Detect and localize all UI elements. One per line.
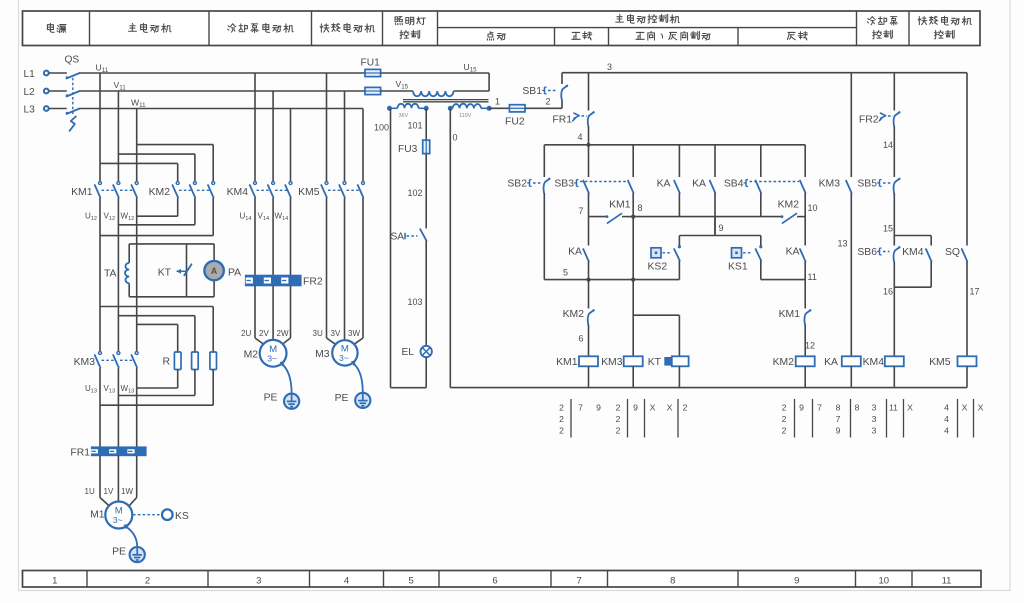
svg-text:4: 4 (944, 403, 949, 413)
ammeter PA (204, 261, 223, 280)
svg-text:KM5: KM5 (929, 357, 951, 368)
svg-text:4: 4 (577, 132, 582, 142)
wire KM2 output crossover (177, 198, 179, 216)
svg-text:X: X (650, 403, 656, 413)
wire KM2 feeds (137, 144, 214, 146)
svg-text:8: 8 (855, 403, 860, 413)
header cell 主电动控制机 (616, 14, 680, 23)
svg-text:EL: EL (402, 347, 415, 358)
svg-text:7: 7 (836, 414, 841, 424)
svg-text:SB4: SB4 (724, 179, 744, 190)
svg-text:FU3: FU3 (398, 144, 418, 155)
wire U11 drop (99, 73, 101, 182)
svg-text:6: 6 (492, 575, 497, 586)
svg-text:KM1: KM1 (609, 200, 631, 211)
node 8 (631, 215, 635, 219)
svg-text:TA: TA (104, 269, 117, 280)
svg-text:PE: PE (264, 393, 278, 404)
svg-text:X: X (978, 403, 984, 413)
svg-text:17: 17 (970, 287, 980, 297)
svg-text:R: R (162, 357, 170, 368)
wire M2 leads (254, 286, 256, 338)
svg-text:KM2: KM2 (149, 187, 171, 198)
svg-text:2: 2 (546, 97, 551, 107)
wire R bank top taps (100, 306, 213, 308)
svg-text:L3: L3 (24, 105, 36, 116)
svg-text:8: 8 (670, 575, 675, 586)
header cell 反转 (787, 32, 807, 40)
wire M3 leads (326, 198, 328, 338)
svg-text:SQ: SQ (945, 247, 960, 258)
svg-text:7: 7 (577, 575, 582, 586)
header cell 冷却泵控制 (867, 17, 897, 26)
svg-text:8: 8 (836, 403, 841, 413)
svg-text:9: 9 (596, 403, 601, 413)
svg-text:103: 103 (408, 297, 423, 307)
svg-text:M2: M2 (244, 350, 259, 361)
svg-text:KA: KA (824, 357, 838, 368)
header table (23, 11, 981, 46)
wire KM1 outputs (99, 198, 101, 352)
svg-text:3: 3 (607, 62, 612, 72)
header cell 快移电动机 (320, 23, 374, 32)
relay contact KA (jog bypass left) (678, 145, 680, 177)
svg-text:SB3: SB3 (554, 179, 574, 190)
svg-text:3U: 3U (313, 329, 323, 338)
svg-text:4: 4 (344, 575, 349, 586)
svg-text:2: 2 (683, 403, 688, 413)
wire V11 drop (117, 91, 119, 182)
svg-text:2: 2 (782, 403, 787, 413)
wire 4 rail (544, 144, 805, 146)
svg-text:2: 2 (559, 426, 564, 436)
svg-text:11: 11 (942, 575, 952, 586)
svg-text:1W: 1W (121, 487, 133, 496)
wire 103 (425, 241, 427, 346)
svg-text:KM1: KM1 (779, 309, 801, 320)
svg-text:110V: 110V (459, 113, 472, 119)
svg-text:15: 15 (883, 224, 893, 234)
svg-text:12: 12 (805, 341, 815, 351)
svg-text:FU2: FU2 (505, 117, 525, 128)
svg-text:KM1: KM1 (71, 187, 93, 198)
thermal relay FR2 heaters (246, 275, 302, 285)
svg-text:7: 7 (578, 206, 583, 216)
svg-text:36V: 36V (399, 113, 409, 119)
wire 102 (425, 154, 427, 229)
svg-text:SB1: SB1 (522, 86, 542, 97)
header cell 主电动机 (129, 23, 171, 32)
svg-text:7: 7 (817, 403, 822, 413)
wire M1 leads (99, 456, 101, 498)
wire KM5 pole feeds (326, 73, 328, 182)
wire L3 bus (79, 108, 363, 110)
motor M1 (100, 498, 109, 507)
wire L1 bus (79, 72, 365, 74)
svg-text:FU1: FU1 (361, 58, 381, 69)
svg-text:7: 7 (578, 403, 583, 413)
bottom zone-number table (23, 571, 982, 588)
header cell 电源 (47, 23, 66, 32)
svg-text:KS: KS (175, 511, 189, 522)
svg-text:PA: PA (228, 268, 241, 279)
svg-text:L2: L2 (24, 87, 36, 98)
transformer 110V secondary winding (450, 107, 452, 109)
svg-text:KM3: KM3 (601, 357, 623, 368)
speed switch KS2 (678, 236, 680, 246)
wire 8 (633, 216, 781, 218)
svg-text:3: 3 (872, 403, 877, 413)
speed switch KS1 (760, 236, 762, 246)
svg-text:L1: L1 (24, 69, 36, 80)
svg-text:3: 3 (872, 414, 877, 424)
svg-text:SA: SA (391, 232, 405, 243)
motor M3 (327, 338, 336, 344)
svg-text:KM1: KM1 (556, 357, 578, 368)
svg-text:2: 2 (145, 575, 150, 586)
svg-text:1: 1 (52, 575, 57, 586)
svg-text:3: 3 (872, 426, 877, 436)
wire W11 drop (136, 109, 138, 182)
svg-text:X: X (907, 403, 913, 413)
svg-text:SB5: SB5 (857, 179, 877, 190)
svg-text:10: 10 (808, 203, 818, 213)
svg-text:KA: KA (786, 247, 800, 258)
header cell 冷却泵电动机 (228, 23, 294, 32)
svg-text:14: 14 (883, 140, 893, 150)
svg-text:A: A (211, 266, 218, 276)
motor M2 (255, 338, 264, 345)
svg-text:KM5: KM5 (298, 187, 320, 198)
pushbutton SB2 (543, 145, 545, 177)
svg-text:PE: PE (335, 393, 349, 404)
svg-text:4: 4 (944, 414, 949, 424)
contact KM2 self-hold (781, 215, 784, 218)
svg-text:0: 0 (453, 133, 458, 143)
svg-text:KM2: KM2 (563, 309, 585, 320)
wire M1 feeders (99, 368, 101, 447)
svg-text:X: X (667, 403, 673, 413)
svg-text:KM4: KM4 (863, 357, 885, 368)
svg-text:2: 2 (616, 403, 621, 413)
contact KM1 interlock (804, 280, 806, 309)
svg-text:KM4: KM4 (902, 247, 924, 258)
transformer TC primary winding (413, 91, 454, 96)
svg-text:100: 100 (374, 123, 389, 133)
wire KT coil feed (633, 314, 679, 316)
wire 100 (390, 108, 392, 387)
svg-text:FR2: FR2 (303, 277, 323, 288)
svg-text:QS: QS (65, 55, 80, 66)
wire 0 (449, 108, 451, 387)
svg-text:KM2: KM2 (773, 357, 795, 368)
header cell 正转 (572, 32, 592, 40)
wire V15 (381, 90, 413, 92)
svg-text:2: 2 (782, 414, 787, 424)
relay contact KA (hold right) (804, 217, 806, 246)
wire 1 (489, 107, 509, 109)
svg-text:3: 3 (256, 575, 261, 586)
svg-text:4: 4 (944, 426, 949, 436)
svg-text:2: 2 (782, 426, 787, 436)
svg-text:3~: 3~ (113, 515, 123, 525)
svg-text:KM3: KM3 (74, 357, 96, 368)
svg-text:3~: 3~ (339, 353, 349, 363)
svg-text:1V: 1V (104, 487, 114, 496)
svg-text:16: 16 (883, 287, 893, 297)
fuse FU2 (509, 105, 525, 112)
svg-text:2: 2 (616, 426, 621, 436)
svg-text:5: 5 (563, 268, 568, 278)
wire 11 (761, 279, 805, 281)
wire 2 (525, 107, 562, 109)
relay contact KA (hold left) (588, 217, 590, 246)
wire 9 (714, 217, 716, 236)
svg-text:6: 6 (578, 334, 583, 344)
svg-text:KM4: KM4 (227, 187, 249, 198)
header cell 照明灯控制 (395, 17, 425, 25)
svg-text:3V: 3V (331, 329, 341, 338)
node 4 (586, 143, 590, 147)
svg-text:9: 9 (633, 403, 638, 413)
header cell 点动 (487, 32, 505, 41)
svg-text:5: 5 (409, 575, 414, 586)
header cell 快移电动机控制 (918, 16, 971, 25)
wire lighting return (425, 357, 427, 388)
svg-text:3~: 3~ (267, 353, 277, 363)
wire KM4 outputs (254, 198, 256, 275)
svg-text:2: 2 (616, 414, 621, 424)
svg-text:9: 9 (719, 223, 724, 233)
svg-text:KA: KA (692, 179, 706, 190)
svg-text:SB2: SB2 (507, 179, 527, 190)
svg-text:2: 2 (559, 414, 564, 424)
svg-text:2V: 2V (259, 329, 269, 338)
svg-text:10: 10 (879, 575, 890, 586)
svg-text:SB6: SB6 (857, 247, 877, 258)
header cell 正向、反向制动 (636, 31, 710, 40)
contact KM2 interlock (588, 280, 590, 309)
svg-text:KM2: KM2 (778, 200, 800, 211)
svg-text:3W: 3W (348, 329, 360, 338)
svg-text:1U: 1U (85, 487, 95, 496)
speed switch KS link (133, 514, 162, 516)
svg-text:PE: PE (112, 547, 126, 558)
svg-text:FR1: FR1 (70, 448, 90, 459)
wire 101 (425, 108, 427, 140)
relay contact KA (jog bypass right) (714, 145, 716, 177)
limit switch SQ (966, 73, 968, 246)
svg-text:FR1: FR1 (552, 115, 572, 126)
svg-text:KS2: KS2 (648, 262, 668, 273)
svg-text:X: X (962, 403, 968, 413)
wire U15 (381, 72, 490, 74)
wire 16 branch (894, 286, 931, 288)
contact KM3 (KA branch) (850, 73, 852, 177)
wire 5 rail (544, 279, 679, 281)
svg-text:1: 1 (495, 97, 500, 107)
current transformer TA box (129, 243, 214, 245)
svg-text:KT: KT (158, 268, 172, 279)
svg-text:11: 11 (808, 272, 817, 282)
svg-text:9: 9 (799, 403, 804, 413)
svg-text:13: 13 (837, 239, 847, 249)
contact KM1 self-hold (589, 216, 607, 218)
wire 3 rail (562, 72, 967, 74)
svg-text:101: 101 (408, 121, 423, 131)
svg-text:M3: M3 (315, 349, 330, 360)
svg-text:2W: 2W (277, 329, 289, 338)
svg-text:8: 8 (638, 203, 643, 213)
svg-text:KA: KA (568, 247, 582, 258)
svg-text:KT: KT (648, 357, 662, 368)
wire 0 bottom rail (450, 387, 967, 389)
wire KM4 pole feeds (254, 73, 256, 182)
wire KM3 coil feed (632, 217, 634, 357)
transformer core (403, 99, 489, 101)
svg-text:102: 102 (408, 188, 423, 198)
svg-text:9: 9 (794, 575, 799, 586)
svg-text:FR2: FR2 (859, 115, 879, 126)
svg-text:M1: M1 (90, 510, 105, 521)
wire R bank bottom returns (177, 370, 179, 389)
svg-text:2: 2 (559, 403, 564, 413)
svg-text:KA: KA (657, 179, 671, 190)
transformer 36V secondary winding (390, 107, 398, 109)
contact KM4 self-hold (930, 236, 932, 246)
svg-text:KM3: KM3 (819, 179, 841, 190)
wire L2 bus (79, 90, 365, 92)
svg-text:9: 9 (836, 426, 841, 436)
svg-text:11: 11 (889, 403, 898, 413)
svg-text:KS1: KS1 (728, 262, 748, 273)
svg-text:2U: 2U (241, 329, 251, 338)
